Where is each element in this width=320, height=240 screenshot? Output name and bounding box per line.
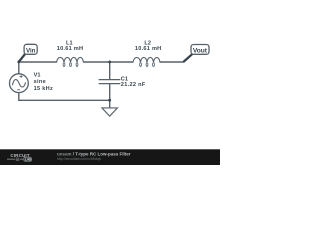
- svg-text:unsam / T-type RC Low-pass Fil: unsam / T-type RC Low-pass Filter: [57, 151, 131, 156]
- svg-text:V1: V1: [34, 73, 41, 79]
- svg-text:Vout: Vout: [193, 47, 208, 54]
- svg-text:21.22 nF: 21.22 nF: [121, 82, 146, 88]
- svg-text:10.61 mH: 10.61 mH: [57, 46, 84, 52]
- svg-text:sine: sine: [34, 79, 46, 85]
- svg-text:Vin: Vin: [26, 47, 36, 54]
- svg-text:10.61 mH: 10.61 mH: [135, 46, 162, 52]
- svg-text:LAB: LAB: [25, 158, 32, 162]
- svg-text:http://circuitlab.com/c/b5dujv: http://circuitlab.com/c/b5dujv: [57, 157, 101, 161]
- svg-text:15 kHz: 15 kHz: [34, 86, 54, 92]
